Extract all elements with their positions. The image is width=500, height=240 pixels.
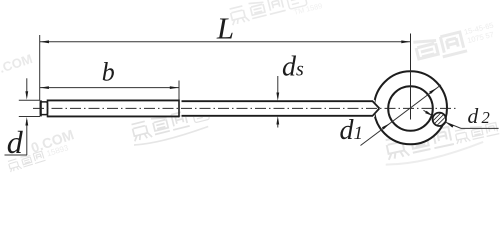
watermark bottom-right <box>381 116 500 168</box>
ds arrow up <box>276 116 279 125</box>
thread bottom edge <box>48 115 180 117</box>
L arrow left <box>40 40 49 43</box>
svg-text:L: L <box>216 10 234 45</box>
L arrow right <box>401 40 410 43</box>
shank bottom edge <box>182 115 374 117</box>
horizontal axis centerline <box>33 107 456 109</box>
watermark top-right <box>413 21 498 63</box>
watermark left .COM <box>0 51 34 76</box>
thread end vertical <box>178 100 180 118</box>
d extension top <box>19 99 40 101</box>
svg-text:.COM: .COM <box>0 51 34 76</box>
ds dim line bottom <box>277 120 279 128</box>
svg-text:d2: d2 <box>468 104 490 128</box>
d label underline <box>5 154 28 156</box>
d1 arrow upper <box>429 88 437 94</box>
shank top edge <box>182 100 374 102</box>
b arrow right <box>170 86 179 89</box>
shank body mask over ring left edge <box>181 100 379 117</box>
cap/thread boundary <box>47 100 49 118</box>
taper top into ring <box>373 101 380 108</box>
watermark bottom-left tiny row <box>7 143 70 172</box>
d arrow up <box>25 117 28 126</box>
b arrow left <box>40 86 49 89</box>
d2 arrow lower-right <box>446 122 454 127</box>
taper bottom into ring <box>373 108 380 115</box>
inner ring circle <box>388 86 433 131</box>
svg-text:b: b <box>102 57 115 86</box>
svg-text:d1: d1 <box>340 115 364 146</box>
d1 arrow lower <box>382 123 390 129</box>
svg-text:d: d <box>7 124 24 160</box>
ds dim line top <box>277 76 279 98</box>
d2 arrow upper-left <box>424 110 434 116</box>
d arrow down <box>25 91 28 100</box>
L dimension line <box>40 41 410 43</box>
outer ring circle <box>374 71 447 144</box>
thread top edge <box>48 99 180 101</box>
d dim line bottom <box>26 120 28 155</box>
hatched section circle <box>427 107 452 136</box>
d dim line top <box>26 78 28 96</box>
svg-text:ds: ds <box>282 51 304 82</box>
b dimension line <box>40 87 179 89</box>
end cap <box>40 102 47 115</box>
vertical ring centerline <box>410 34 412 120</box>
d extension bottom <box>19 116 40 118</box>
d1 leader diagonal <box>361 85 442 146</box>
watermark bottom-center <box>129 105 212 147</box>
d2 label underline <box>461 127 499 129</box>
L extension line left <box>39 35 41 100</box>
b extension line right <box>178 81 180 100</box>
watermark bottom-left .COM <box>29 126 76 156</box>
end cap left edge <box>40 100 42 116</box>
watermark top-center <box>228 0 323 32</box>
ds arrow down <box>276 93 279 102</box>
d2 leader lower-right <box>446 122 461 128</box>
